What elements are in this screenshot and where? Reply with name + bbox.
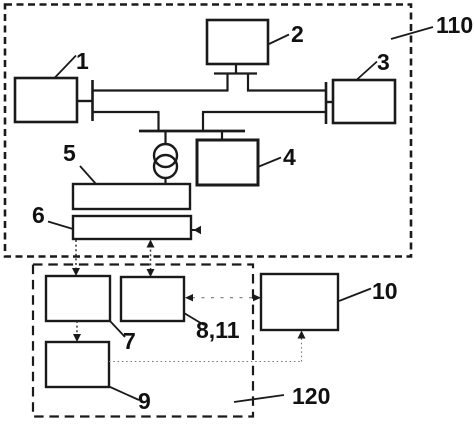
label 1 <box>76 48 89 74</box>
bus coupler tick left <box>91 80 94 121</box>
leader line label 9 <box>109 387 139 401</box>
wire bus B left segment <box>93 111 160 113</box>
svg-text:8,11: 8,11 <box>196 317 240 343</box>
label 110 <box>436 12 473 38</box>
label 5 <box>63 140 76 166</box>
svg-text:110: 110 <box>436 12 473 38</box>
leader line label 7 <box>110 321 125 337</box>
svg-text:9: 9 <box>138 388 151 414</box>
box 10 <box>261 274 338 330</box>
dotted arrowhead into box10 bottom <box>298 331 306 339</box>
wire bus B right drop <box>202 112 204 131</box>
wire stub box2 down <box>235 64 237 75</box>
label 7 <box>123 328 136 354</box>
dashed boundary 110 <box>5 5 411 257</box>
svg-text:1: 1 <box>76 48 89 74</box>
leader line label 110 <box>391 27 433 39</box>
svg-text:5: 5 <box>63 140 76 166</box>
leader line label 6 <box>48 222 73 230</box>
bus coupler tick right <box>325 82 328 124</box>
box 4 <box>197 140 258 185</box>
svg-text:6: 6 <box>32 202 45 228</box>
wire T-drop right under box 2 <box>247 73 249 92</box>
dotted double arrow box 8,11 to box 6 <box>147 240 155 278</box>
wire transformer to box 5 <box>164 178 166 184</box>
wire bus B left drop <box>157 112 159 131</box>
label 10 <box>372 278 398 304</box>
box 8,11 <box>121 277 184 321</box>
leader line label 4 <box>259 158 281 167</box>
wire bus A right segment <box>247 89 326 91</box>
box 5 <box>73 184 190 209</box>
box 9 <box>46 342 109 387</box>
leader line label 3 <box>357 62 377 80</box>
leader line label 10 <box>339 289 371 302</box>
wire T-drop left under box 2 <box>226 73 228 92</box>
svg-text:7: 7 <box>123 328 136 354</box>
leader line label 8,11 <box>184 313 204 325</box>
svg-text:120: 120 <box>292 383 330 409</box>
wire stub box1 to coupler <box>77 100 93 102</box>
svg-text:10: 10 <box>372 278 398 304</box>
leader line label 5 <box>80 166 96 184</box>
label 120 <box>292 383 330 409</box>
box 3 <box>333 80 395 123</box>
wire T-bar under box 2 <box>214 72 257 74</box>
svg-text:2: 2 <box>291 21 304 47</box>
box 1 <box>15 78 77 122</box>
label 9 <box>138 388 151 414</box>
box 7 <box>46 276 110 321</box>
wire lower bus bar <box>139 130 245 133</box>
dotted arrow box6 to box7 <box>72 240 80 276</box>
dashed double arrow box 8,11 to box 10 <box>185 294 261 301</box>
leader line label 1 <box>54 56 76 79</box>
wire stub coupler to box3 <box>326 101 333 103</box>
label 8,11 <box>196 317 240 343</box>
box 2 <box>207 20 268 64</box>
svg-text:4: 4 <box>283 144 296 170</box>
wire tap to box 4 <box>221 131 223 140</box>
label 6 <box>32 202 45 228</box>
wire bus B right segment <box>202 111 326 113</box>
box 6 <box>73 216 191 239</box>
dotted wire box9 to below box10 <box>109 336 302 362</box>
svg-text:3: 3 <box>377 49 390 75</box>
wire bus A left segment <box>93 89 229 91</box>
transformer symbol (two overlapping circles) <box>154 144 177 178</box>
label 4 <box>283 144 296 170</box>
arrow into box 6 right side <box>191 226 201 234</box>
dashed boundary 120 <box>33 265 253 417</box>
leader line label 2 <box>269 35 289 45</box>
label 3 <box>377 49 390 75</box>
label 2 <box>291 21 304 47</box>
wire tap to transformer <box>164 131 166 144</box>
dotted arrow box7 to box9 <box>73 321 81 342</box>
leader line label 120 <box>234 395 284 402</box>
